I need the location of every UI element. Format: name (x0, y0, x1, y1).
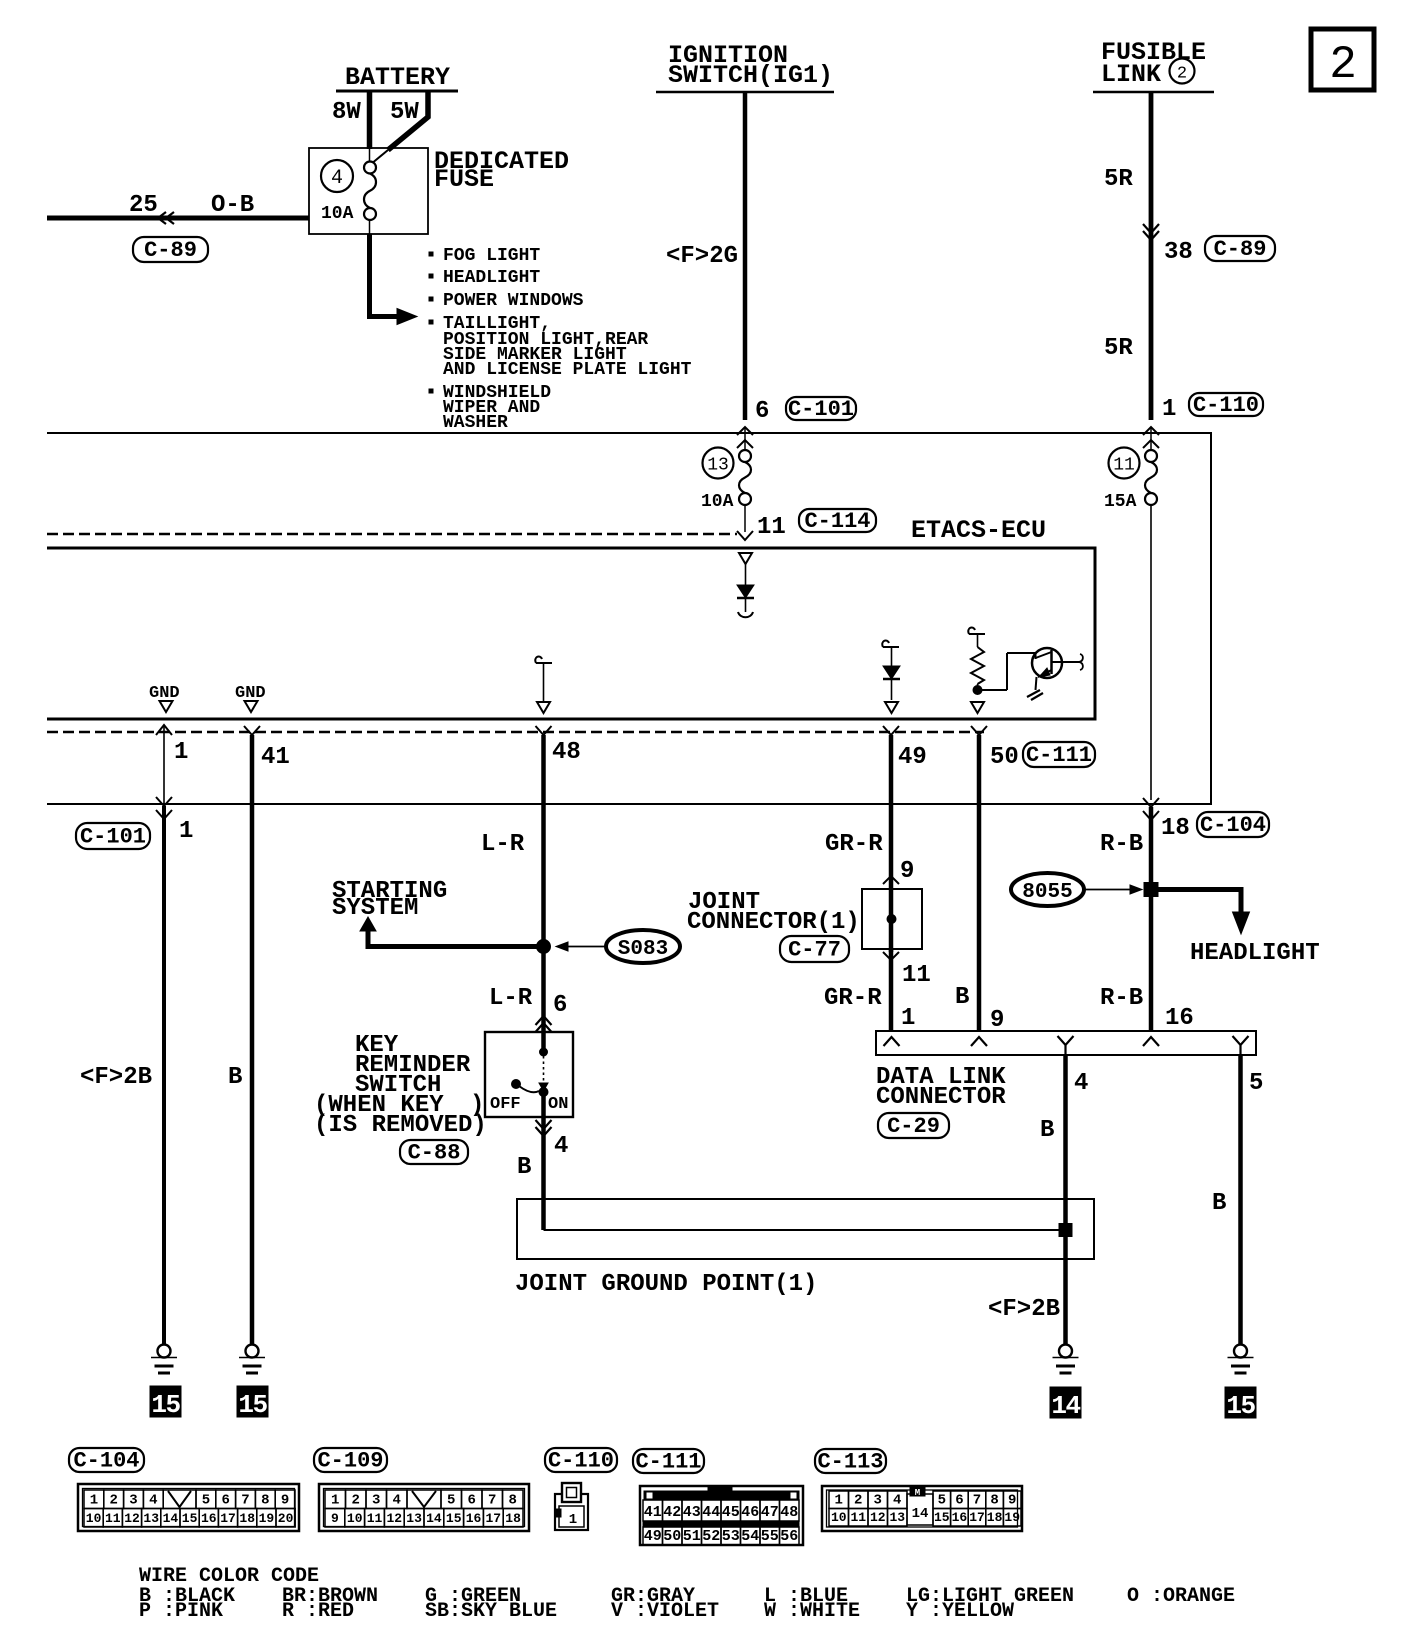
svg-text:HEADLIGHT: HEADLIGHT (443, 268, 540, 288)
svg-text:C-89: C-89 (144, 238, 197, 263)
svg-text:CONNECTOR(1): CONNECTOR(1) (687, 909, 860, 936)
svg-text:56: 56 (780, 1528, 798, 1545)
svg-text:41: 41 (644, 1504, 662, 1521)
svg-text:C-110: C-110 (1193, 393, 1259, 418)
svg-text:47: 47 (761, 1504, 779, 1521)
svg-text:5: 5 (1249, 1070, 1263, 1097)
svg-text:P :PINK: P :PINK (139, 1600, 223, 1623)
svg-text:13: 13 (707, 456, 729, 476)
svg-text:14: 14 (1051, 1391, 1080, 1421)
svg-text:6: 6 (955, 1493, 963, 1509)
svg-text:25: 25 (129, 192, 158, 219)
svg-text:9: 9 (990, 1007, 1004, 1034)
svg-text:10: 10 (831, 1510, 847, 1525)
svg-text:11: 11 (105, 1511, 121, 1526)
svg-text:7: 7 (973, 1493, 981, 1509)
svg-text:1: 1 (179, 818, 193, 845)
svg-text:18: 18 (239, 1511, 255, 1526)
svg-text:BATTERY: BATTERY (345, 63, 450, 92)
svg-text:1: 1 (174, 739, 188, 766)
svg-text:14: 14 (912, 1506, 929, 1522)
svg-text:41: 41 (261, 744, 290, 771)
svg-text:51: 51 (683, 1528, 701, 1545)
svg-text:C-104: C-104 (1200, 813, 1266, 838)
svg-text:2: 2 (1329, 39, 1357, 91)
svg-text:5W: 5W (390, 99, 419, 126)
svg-text:B: B (955, 984, 969, 1011)
svg-text:FUSE: FUSE (434, 165, 494, 194)
svg-text:W :WHITE: W :WHITE (764, 1600, 860, 1623)
svg-text:ON: ON (548, 1095, 568, 1114)
svg-text:R-B: R-B (1100, 985, 1143, 1012)
svg-text:16: 16 (1165, 1005, 1194, 1032)
svg-text:17: 17 (969, 1510, 985, 1525)
svg-text:38: 38 (1164, 239, 1193, 266)
svg-text:HEADLIGHT: HEADLIGHT (1190, 940, 1320, 967)
svg-text:10: 10 (347, 1511, 363, 1526)
svg-text:1: 1 (90, 1493, 98, 1509)
svg-text:46: 46 (741, 1504, 759, 1521)
svg-text:LINK: LINK (1101, 60, 1161, 89)
svg-text:B: B (228, 1064, 242, 1091)
svg-text:C-109: C-109 (317, 1449, 383, 1474)
svg-text:50: 50 (990, 744, 1019, 771)
svg-text:SYSTEM: SYSTEM (332, 895, 418, 922)
svg-text:9: 9 (1008, 1493, 1016, 1509)
svg-text:14: 14 (163, 1511, 179, 1526)
svg-text:9: 9 (281, 1493, 289, 1509)
svg-text:<F>2B: <F>2B (80, 1064, 152, 1091)
svg-text:6: 6 (755, 398, 769, 425)
svg-text:7: 7 (241, 1493, 249, 1509)
svg-text:O-B: O-B (211, 192, 254, 219)
svg-text:15: 15 (151, 1390, 180, 1420)
svg-text:B: B (1040, 1117, 1054, 1144)
svg-text:L-R: L-R (481, 831, 525, 858)
svg-text:<F>2B: <F>2B (988, 1296, 1060, 1323)
svg-text:Y :YELLOW: Y :YELLOW (906, 1600, 1014, 1623)
svg-text:6: 6 (221, 1493, 229, 1509)
svg-text:15A: 15A (1104, 492, 1137, 512)
svg-text:2: 2 (854, 1493, 862, 1509)
svg-text:19: 19 (259, 1511, 275, 1526)
svg-text:53: 53 (722, 1528, 740, 1545)
svg-text:11: 11 (902, 962, 931, 989)
svg-text:9: 9 (900, 858, 914, 885)
svg-text:11: 11 (850, 1510, 866, 1525)
svg-text:54: 54 (741, 1528, 759, 1545)
svg-text:(IS REMOVED): (IS REMOVED) (314, 1112, 487, 1139)
svg-text:C-29: C-29 (887, 1114, 940, 1139)
svg-text:11: 11 (1113, 456, 1135, 476)
svg-text:C-104: C-104 (73, 1449, 139, 1474)
svg-text:3: 3 (129, 1493, 137, 1509)
svg-text:8055: 8055 (1022, 881, 1072, 904)
svg-text:1: 1 (901, 1005, 915, 1032)
svg-text:19: 19 (1004, 1510, 1020, 1525)
svg-text:3: 3 (372, 1493, 380, 1509)
svg-text:C-101: C-101 (788, 397, 854, 422)
svg-text:49: 49 (898, 744, 927, 771)
svg-text:16: 16 (466, 1511, 482, 1526)
svg-text:V :VIOLET: V :VIOLET (611, 1600, 719, 1623)
svg-text:5: 5 (447, 1493, 455, 1509)
svg-text:R :RED: R :RED (282, 1600, 354, 1623)
svg-text:10: 10 (86, 1511, 102, 1526)
svg-text:O :ORANGE: O :ORANGE (1127, 1585, 1235, 1608)
svg-text:1: 1 (331, 1493, 339, 1509)
svg-text:12: 12 (124, 1511, 140, 1526)
svg-text:1: 1 (569, 1512, 577, 1528)
svg-text:11: 11 (757, 514, 786, 541)
svg-text:44: 44 (702, 1504, 720, 1521)
svg-text:5: 5 (938, 1493, 946, 1509)
svg-text:GR-R: GR-R (825, 831, 883, 858)
svg-text:5: 5 (202, 1493, 210, 1509)
svg-text:13: 13 (406, 1511, 422, 1526)
svg-text:10A: 10A (321, 204, 354, 224)
svg-text:8: 8 (509, 1493, 517, 1509)
svg-text:C-89: C-89 (1214, 237, 1267, 262)
svg-text:4: 4 (893, 1493, 901, 1509)
svg-text:CONNECTOR: CONNECTOR (876, 1084, 1006, 1111)
svg-text:15: 15 (446, 1511, 462, 1526)
svg-text:ETACS-ECU: ETACS-ECU (911, 516, 1046, 545)
svg-text:R-B: R-B (1100, 831, 1143, 858)
svg-text:C-114: C-114 (804, 509, 870, 534)
svg-text:15: 15 (182, 1511, 198, 1526)
svg-text:AND LICENSE PLATE LIGHT: AND LICENSE PLATE LIGHT (443, 360, 692, 380)
svg-text:55: 55 (761, 1528, 779, 1545)
svg-text:15: 15 (1226, 1391, 1255, 1421)
svg-text:18: 18 (1161, 815, 1190, 842)
svg-text:1: 1 (835, 1493, 843, 1509)
svg-text:43: 43 (683, 1504, 701, 1521)
svg-text:C-101: C-101 (80, 825, 146, 850)
svg-text:42: 42 (663, 1504, 681, 1521)
svg-text:1: 1 (1162, 396, 1176, 423)
svg-text:4: 4 (393, 1493, 401, 1509)
svg-text:4: 4 (149, 1493, 157, 1509)
svg-text:FOG LIGHT: FOG LIGHT (443, 246, 540, 266)
svg-text:16: 16 (201, 1511, 217, 1526)
svg-text:48: 48 (780, 1504, 798, 1521)
svg-text:B: B (517, 1154, 531, 1181)
svg-text:2: 2 (1177, 65, 1187, 84)
svg-text:GR-R: GR-R (824, 985, 882, 1012)
svg-text:OFF: OFF (490, 1095, 521, 1114)
svg-text:11: 11 (367, 1511, 383, 1526)
svg-text:L-R: L-R (489, 985, 533, 1012)
svg-text:C-113: C-113 (817, 1450, 883, 1475)
svg-text:17: 17 (220, 1511, 236, 1526)
svg-text:C-88: C-88 (408, 1141, 461, 1166)
svg-text:C-110: C-110 (548, 1449, 614, 1474)
svg-text:B: B (1212, 1190, 1226, 1217)
svg-text:10A: 10A (701, 492, 734, 512)
svg-text:7: 7 (488, 1493, 496, 1509)
svg-text:13: 13 (889, 1510, 905, 1525)
svg-text:WASHER: WASHER (443, 413, 508, 433)
svg-text:20: 20 (278, 1511, 294, 1526)
svg-text:12: 12 (386, 1511, 402, 1526)
svg-text:8: 8 (261, 1493, 269, 1509)
svg-text:5R: 5R (1104, 335, 1133, 362)
svg-text:<F>2G: <F>2G (666, 243, 738, 270)
svg-text:18: 18 (987, 1510, 1003, 1525)
svg-text:C-111: C-111 (635, 1450, 701, 1475)
svg-text:45: 45 (722, 1504, 740, 1521)
svg-text:8: 8 (990, 1493, 998, 1509)
svg-text:SB:SKY BLUE: SB:SKY BLUE (425, 1600, 557, 1623)
svg-text:POWER WINDOWS: POWER WINDOWS (443, 291, 584, 311)
svg-text:M: M (915, 1488, 920, 1498)
svg-text:9: 9 (331, 1511, 339, 1526)
svg-text:6: 6 (468, 1493, 476, 1509)
svg-text:15: 15 (238, 1390, 267, 1420)
svg-text:6: 6 (553, 992, 567, 1019)
svg-text:48: 48 (552, 739, 581, 766)
svg-text:4: 4 (554, 1133, 568, 1160)
svg-text:52: 52 (702, 1528, 720, 1545)
svg-text:3: 3 (874, 1493, 882, 1509)
svg-text:2: 2 (352, 1493, 360, 1509)
svg-text:16: 16 (952, 1510, 968, 1525)
svg-text:C-77: C-77 (788, 938, 841, 963)
svg-text:14: 14 (426, 1511, 442, 1526)
svg-text:4: 4 (331, 167, 343, 190)
svg-text:4: 4 (1074, 1070, 1088, 1097)
svg-text:18: 18 (505, 1511, 521, 1526)
svg-text:5R: 5R (1104, 166, 1133, 193)
svg-text:2: 2 (109, 1493, 117, 1509)
svg-text:JOINT GROUND POINT(1): JOINT GROUND POINT(1) (515, 1271, 817, 1298)
svg-text:50: 50 (663, 1528, 681, 1545)
svg-text:15: 15 (934, 1510, 950, 1525)
svg-text:12: 12 (870, 1510, 886, 1525)
svg-text:8W: 8W (332, 99, 361, 126)
svg-text:C-111: C-111 (1026, 743, 1092, 768)
svg-text:S083: S083 (618, 938, 668, 961)
svg-text:13: 13 (143, 1511, 159, 1526)
svg-text:SWITCH(IG1): SWITCH(IG1) (668, 61, 833, 90)
svg-text:49: 49 (644, 1528, 662, 1545)
svg-text:17: 17 (485, 1511, 501, 1526)
